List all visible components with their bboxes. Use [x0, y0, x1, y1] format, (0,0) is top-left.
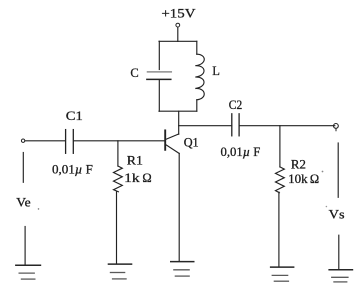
- svg-text:R2: R2: [291, 158, 306, 172]
- svg-text:L: L: [212, 64, 220, 78]
- svg-text:Ve: Ve: [16, 195, 31, 209]
- svg-text:Ω: Ω: [310, 172, 319, 186]
- svg-text:0,01µ F: 0,01µ F: [221, 145, 261, 159]
- svg-text:C2: C2: [229, 98, 242, 112]
- svg-text:10k: 10k: [288, 172, 308, 186]
- svg-text:R1: R1: [127, 153, 143, 167]
- svg-text:Q1: Q1: [184, 135, 199, 149]
- svg-text:Ω: Ω: [142, 171, 151, 185]
- svg-text:+15V: +15V: [161, 7, 195, 21]
- svg-text:C: C: [130, 66, 138, 80]
- svg-text:1k: 1k: [124, 171, 140, 185]
- svg-text:0,01µ F: 0,01µ F: [52, 162, 93, 176]
- svg-text:Vs: Vs: [329, 208, 345, 222]
- svg-text:C1: C1: [66, 109, 83, 123]
